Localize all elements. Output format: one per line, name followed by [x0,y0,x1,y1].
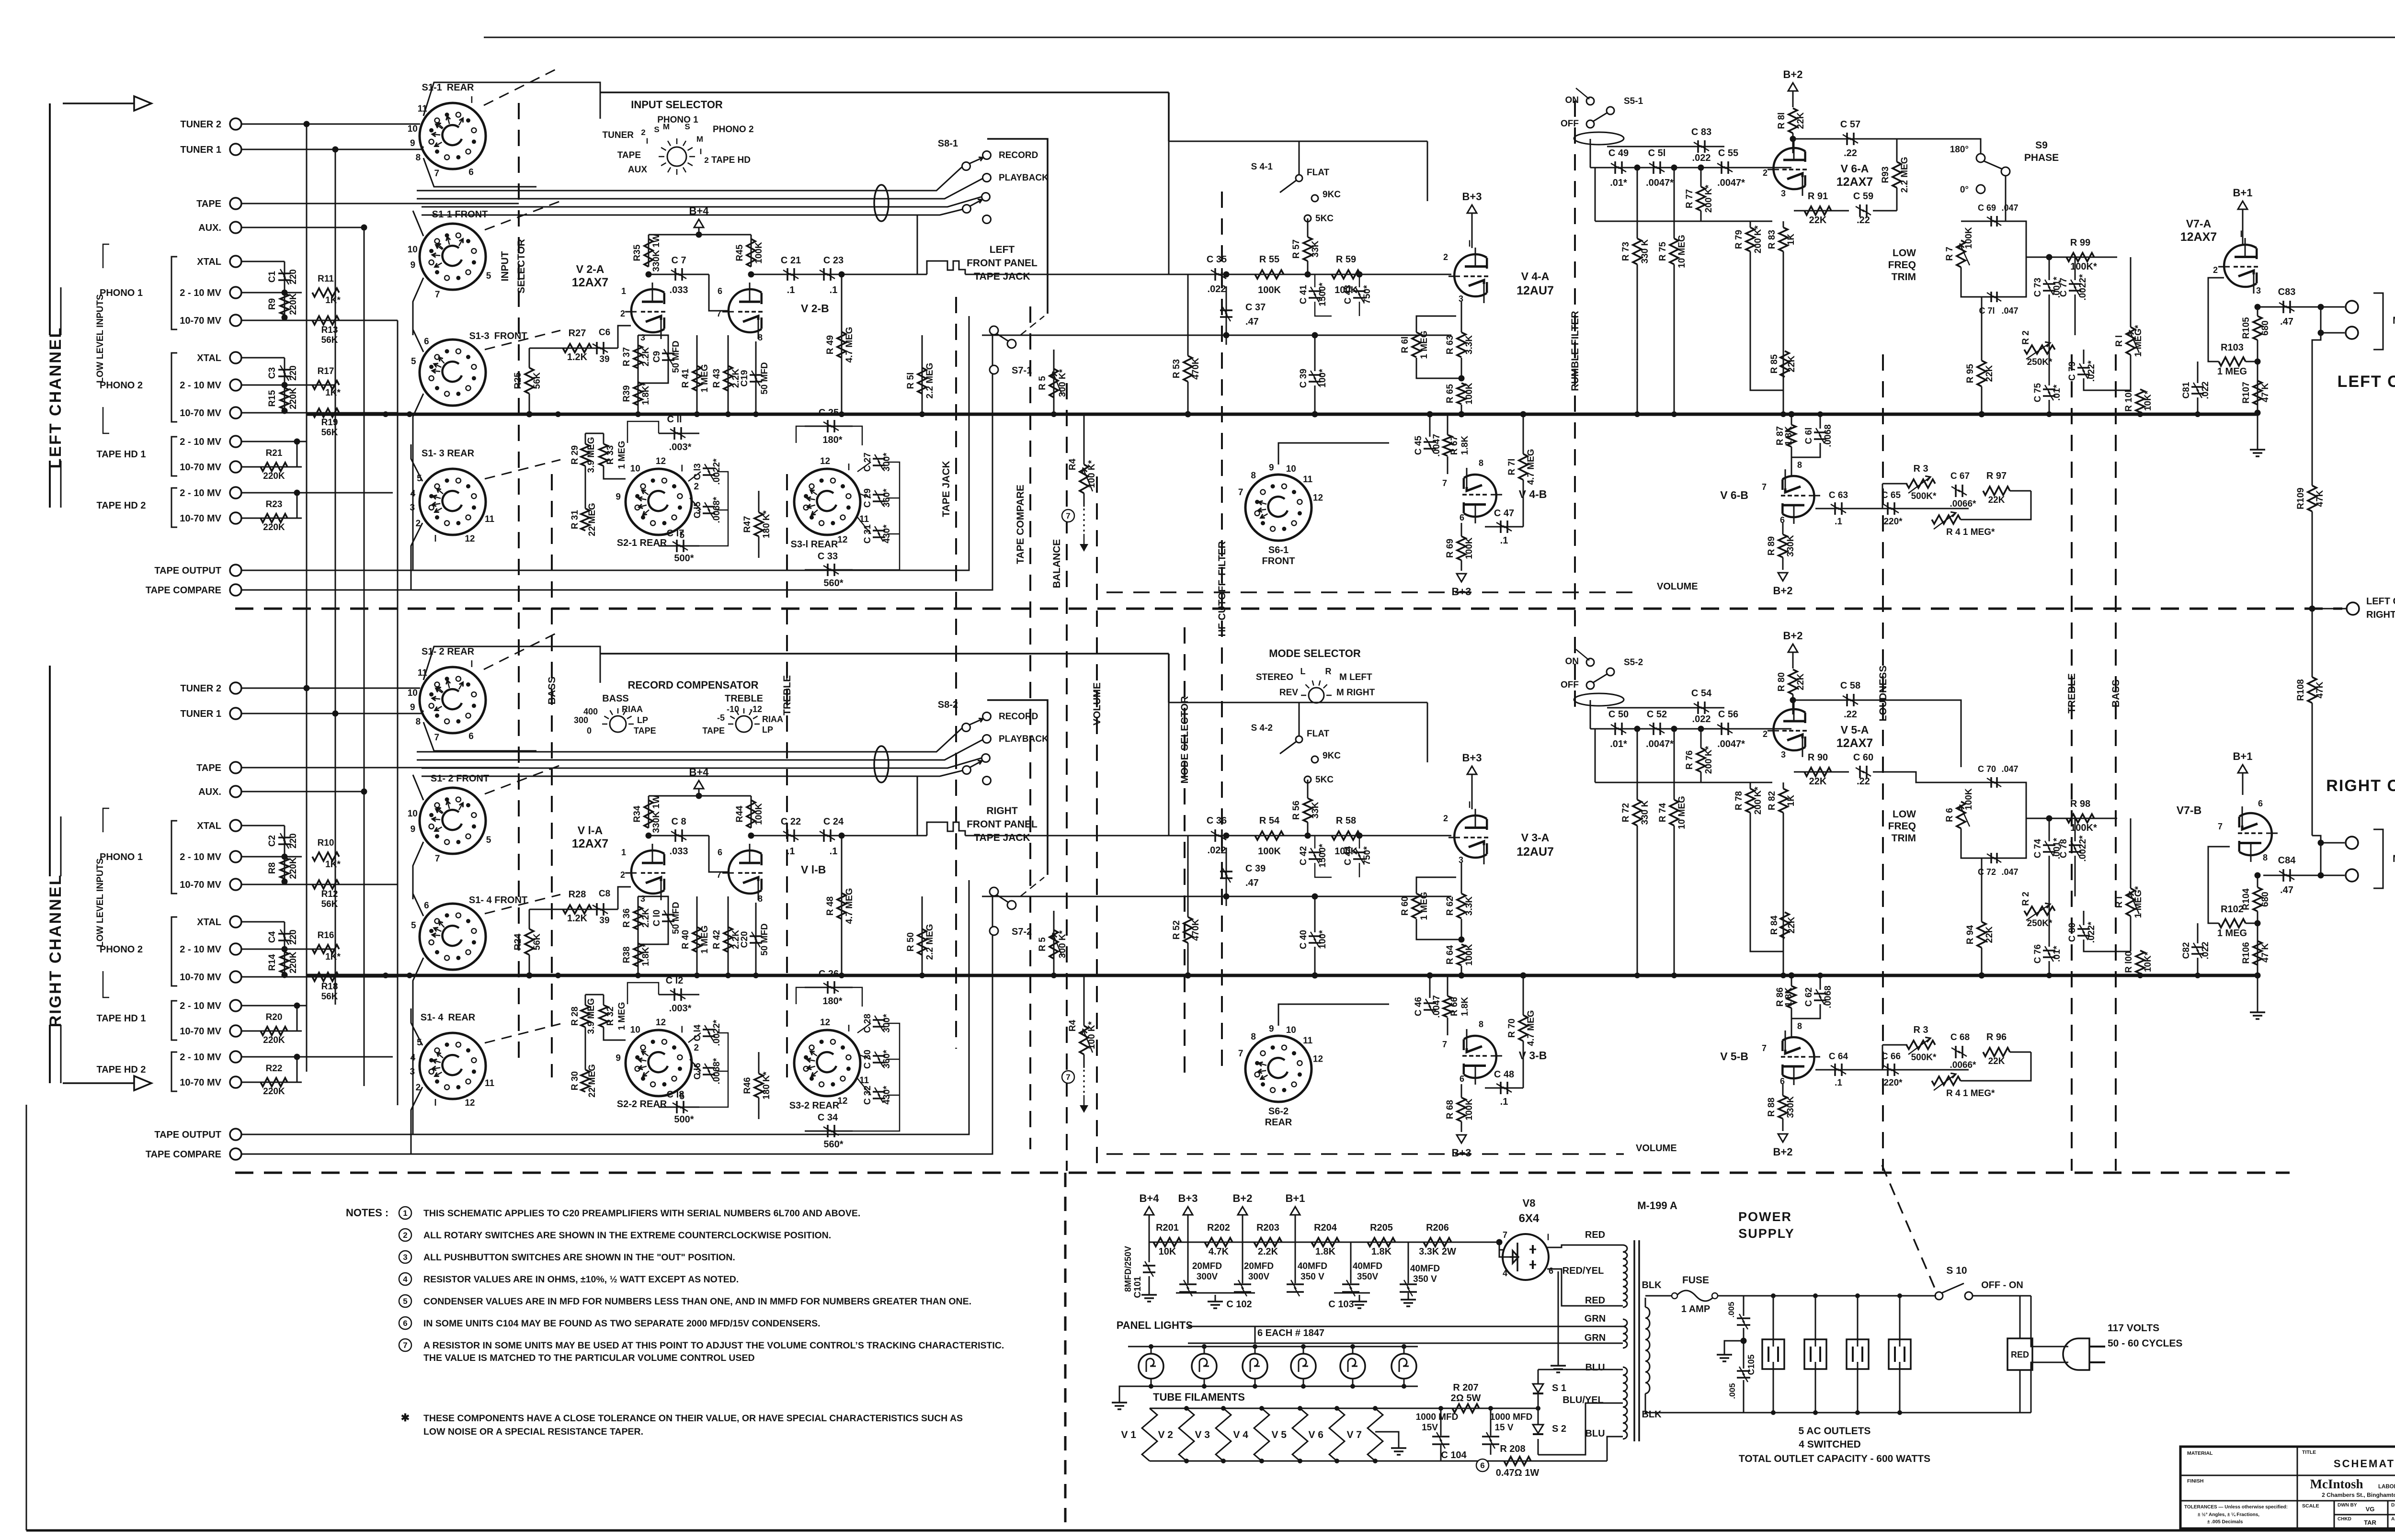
resistor R 8l 22K [1789,108,1797,133]
svg-text:TAPE HD 2: TAPE HD 2 [97,500,146,511]
svg-text:S1- 2 REAR: S1- 2 REAR [422,646,475,657]
svg-text:AUX: AUX [628,165,647,175]
svg-text:.01*: .01* [1610,178,1627,188]
svg-text:.0068: .0068 [1823,985,1833,1008]
svg-text:.1: .1 [1835,1078,1842,1088]
wire rectifier plate to rail [1499,1242,1504,1250]
input jack 10-70 MV y=669 [230,315,241,326]
svg-text:2: 2 [620,870,625,880]
svg-text:S1- 2 FRONT: S1- 2 FRONT [431,773,489,784]
svg-text:R 43: R 43 [712,369,722,388]
svg-text:R39: R39 [622,385,632,402]
capacitor C 80 .022* [2077,928,2090,930]
svg-text:R 10l: R 10l [2124,390,2134,411]
svg-text:TAPE JACK: TAPE JACK [974,832,1030,843]
svg-text:R 88: R 88 [1767,1098,1777,1117]
svg-text:ALL ROTARY SWITCHES ARE SHOWN: ALL ROTARY SWITCHES ARE SHOWN IN THE EXT… [423,1230,831,1241]
svg-text:2 - 10 MV: 2 - 10 MV [180,1052,221,1063]
svg-text:V 4-A: V 4-A [1521,270,1550,283]
resistor R24 56K [525,929,534,955]
svg-text:INPUT: INPUT [500,251,511,281]
resistor R109 47K [2312,307,2313,486]
svg-text:S 4-2: S 4-2 [1251,723,1273,733]
svg-text:C83: C83 [2278,287,2296,297]
panel lights ground [1128,1347,1129,1386]
svg-text:-5: -5 [717,713,725,723]
svg-text:MODE SELECTOR: MODE SELECTOR [1179,696,1190,784]
svg-text:7: 7 [403,1341,407,1350]
svg-text:CHKD: CHKD [2338,1517,2351,1522]
svg-text:R 5: R 5 [1038,376,1048,390]
svg-text:C 62: C 62 [1804,987,1814,1007]
svg-text:330K: 330K [1786,1096,1796,1118]
svg-text:20MFD: 20MFD [1192,1261,1222,1271]
wire filter net top [1299,141,1300,175]
svg-text:.22: .22 [1857,776,1870,787]
svg-text:R 75: R 75 [1658,242,1668,261]
rotary switch S1- 3 REAR [420,469,486,535]
resistor R 6l 1MEG [1412,332,1421,357]
left channel flow arrow [63,102,135,104]
input jack 10-70 MV y=1082 [230,512,241,524]
capacitor C 65 220* [1887,502,1889,515]
resistor R 89 330K [1779,534,1787,557]
svg-text:1 MEG: 1 MEG [617,441,627,469]
resistor R201 10K [1153,1238,1181,1246]
svg-text:10-70 MV: 10-70 MV [180,316,221,326]
wire tone ladder S3 top [796,426,805,443]
wire S6 to V4B [1278,1004,1389,1026]
svg-text:V 4: V 4 [1233,1429,1248,1440]
svg-text:LOUDNESS: LOUDNESS [1878,666,1889,722]
svg-text:39: 39 [599,916,609,926]
svg-text:3.3K: 3.3K [1464,896,1474,916]
svg-text:C 40: C 40 [1299,930,1309,949]
svg-text:4.7 MEG: 4.7 MEG [1526,1010,1536,1046]
svg-text:R 67: R 67 [1449,436,1460,455]
svg-text:6: 6 [424,901,429,911]
svg-text:100K: 100K [1258,846,1281,857]
svg-text:V l-B: V l-B [801,863,826,876]
svg-text:220K: 220K [288,951,298,974]
svg-text:R 69: R 69 [1445,539,1455,558]
triode V 6-A envelope [1768,141,1807,196]
capacitor C2 220 [241,825,285,827]
svg-text:l: l [1468,239,1471,249]
capacitor C 8 .033 [649,835,709,837]
svg-text:.01*: .01* [1610,739,1627,749]
svg-text:200 K*: 200 K* [1704,746,1714,774]
wire TAPE COMPARE run [241,890,992,1154]
svg-text:R46: R46 [742,1077,753,1094]
svg-text:V7-A: V7-A [2186,217,2211,230]
panel lamp 2 [1192,1354,1217,1379]
svg-text:R l: R l [2114,335,2124,347]
svg-text:GRN: GRN [1585,1314,1606,1324]
supply arrow B+1 right [2238,765,2247,773]
panel lamp 3 [1243,1354,1267,1379]
wire S1-3 rear outline [411,444,422,481]
capacitor C 76 .01* [2043,950,2055,951]
title block row lines [2180,1475,2395,1476]
svg-text:C 70: C 70 [1978,764,1996,774]
capacitor C 34 560* [805,1131,853,1132]
capacitor C 26 180* [805,987,853,988]
svg-text:10: 10 [408,245,418,255]
svg-text:R 207: R 207 [1453,1382,1478,1393]
resistor R 66 1.8K [1443,996,1452,1017]
svg-text:B+1: B+1 [2233,750,2253,762]
svg-text:TAPE OUTPUT: TAPE OUTPUT [154,1130,221,1140]
svg-text:R 59: R 59 [1336,254,1356,265]
triode V 6-B envelope [1781,469,1820,524]
svg-text:12: 12 [656,456,666,466]
svg-text:C2: C2 [267,835,277,847]
svg-text:8: 8 [758,333,763,342]
svg-text:RIGHT: RIGHT [986,805,1018,816]
wires to record/playback [417,728,962,752]
svg-text:MATERIAL: MATERIAL [2187,1450,2213,1456]
svg-text:9KC: 9KC [1323,751,1341,761]
svg-text:SCHEMATIC: SCHEMATIC [2334,1458,2395,1470]
svg-text:10: 10 [408,809,418,819]
capacitor C 35 .022 [1169,274,1245,275]
svg-text:R 89: R 89 [1767,536,1777,555]
svg-text:6: 6 [718,286,722,296]
svg-text:R202: R202 [1207,1223,1230,1233]
resistor R103 1MEG [2219,357,2246,366]
svg-text:.022: .022 [1208,284,1226,294]
wire tuner2 to selector [241,688,417,689]
svg-text:12AX7: 12AX7 [572,276,608,289]
wire tone ladder S3 right [857,1023,871,1033]
resistor R 52 470K [1184,917,1192,943]
svg-text:220*: 220* [1883,517,1903,527]
capacitor C 62 .0068 [1814,993,1826,995]
wire S1-3 rear outline [411,1008,422,1045]
svg-text:1.8K*: 1.8K* [641,943,651,966]
svg-text:100K: 100K [1964,788,1974,810]
svg-text:l: l [1468,800,1471,810]
svg-text:47 K: 47 K [2260,383,2270,402]
border top-right frame line [484,37,2395,38]
capacitor C 79 .022* [2077,367,2090,369]
wire selector outline polygon S1 rear [423,82,600,119]
triode V l-B envelope [722,844,763,900]
svg-text:4: 4 [403,1275,408,1284]
svg-text:50 MFD: 50 MFD [760,923,770,956]
capacitor C 41 1500* [1309,290,1321,292]
svg-text:22K: 22K [1988,495,2005,505]
svg-text:.47: .47 [1245,878,1259,888]
svg-text:7: 7 [1066,1073,1070,1082]
tube filament V1 [1142,1408,1157,1461]
wire loudness top net [1590,700,1591,729]
svg-text:C 42: C 42 [1299,846,1309,865]
svg-text:6: 6 [1460,1074,1464,1084]
svg-text:R 36: R 36 [622,908,632,928]
svg-text:1.8K: 1.8K [1784,987,1794,1007]
resistor R 64 100K [1457,944,1466,965]
svg-text:500*: 500* [674,553,694,564]
svg-text:9: 9 [1269,463,1274,473]
svg-text:TAR: TAR [2364,1519,2376,1526]
capacitor C 32 430* [873,1091,885,1093]
svg-text:C 74: C 74 [2033,839,2043,859]
AC outlet 1 (switched) [1762,1339,1784,1369]
resistor R 73 330K [1633,238,1642,264]
input jack TAPE OUTPUT [230,565,241,576]
svg-text:1: 1 [403,1209,407,1218]
svg-text:6: 6 [1480,1461,1484,1470]
resistor R 67 1.8K [1443,435,1452,456]
input jack AUX. y=1653 [230,786,241,797]
svg-text:11: 11 [859,1076,869,1086]
svg-text:.0022*: .0022* [2078,274,2088,301]
svg-text:C 34: C 34 [818,1112,838,1123]
svg-text:R47: R47 [742,516,753,533]
svg-text:V 5: V 5 [1271,1429,1287,1440]
transformer secondary RED winding [1623,1245,1627,1307]
svg-text:C 48: C 48 [1494,1069,1514,1080]
svg-text:100K: 100K [754,803,764,825]
svg-text:1: 1 [621,286,626,296]
svg-text:1K*: 1K* [325,860,341,870]
resistor R39 1.8K* [634,382,642,405]
svg-text:10 MEG: 10 MEG [1677,796,1687,829]
svg-text:PHONO 1: PHONO 1 [100,288,143,298]
svg-text:100K: 100K [1464,1098,1474,1121]
svg-text:C 44: C 44 [1343,846,1353,866]
svg-text:330 K: 330 K [1640,239,1650,263]
svg-text:50 MFD: 50 MFD [671,902,681,934]
svg-text:.01*: .01* [2052,945,2062,962]
svg-text:1 MEG: 1 MEG [1419,892,1429,920]
resistor R 37 2.2K [638,335,639,414]
resistor R 87 1.8K [1787,425,1796,447]
svg-text:TREBLE: TREBLE [2066,673,2077,713]
svg-text:350 V: 350 V [1300,1272,1324,1282]
svg-text:R 56: R 56 [1291,801,1301,820]
svg-text:C105: C105 [1746,1354,1756,1375]
resistor R 49 4.7MEG [841,274,843,414]
svg-text:9: 9 [616,492,621,502]
wire tone ladder S2 right [688,472,701,481]
svg-text:RIGHT CHANNEL: RIGHT CHANNEL [46,874,65,1027]
svg-text:117 VOLTS: 117 VOLTS [2108,1323,2159,1334]
svg-text:3: 3 [640,894,645,904]
svg-text:C 43: C 43 [1343,285,1353,304]
svg-text:R 28: R 28 [570,1007,580,1026]
svg-text:TAPE OUTPUT: TAPE OUTPUT [154,566,221,576]
svg-text:R 96: R 96 [1986,1032,2007,1042]
svg-text:l: l [1547,1233,1549,1242]
resistor R 91 22K [1794,210,1849,212]
svg-text:220: 220 [288,269,298,284]
rectifier V8 6X4 envelope [1503,1234,1549,1280]
svg-text:500K*: 500K* [1911,1053,1937,1063]
svg-text:8: 8 [1479,458,1483,468]
svg-text:330K 1W: 330K 1W [651,234,661,272]
supply arrow B+3 power supply [1183,1207,1193,1215]
svg-text:R9: R9 [267,298,277,310]
capacitor C 23 .1 [823,268,825,281]
svg-text:12AX7: 12AX7 [1836,175,1873,189]
wire aux to selector [241,227,364,228]
svg-text:11: 11 [859,514,869,524]
svg-text:R 85: R 85 [1769,354,1779,374]
svg-text:TAPE JACK: TAPE JACK [974,271,1030,282]
svg-text:10: 10 [630,1025,640,1035]
svg-text:10K*: 10K* [2143,951,2153,972]
svg-text:TAPE HD 1: TAPE HD 1 [97,449,146,460]
title block outer box [2180,1447,2395,1529]
svg-text:C 56: C 56 [1718,709,1738,720]
svg-text:FREQ: FREQ [1888,821,1916,832]
svg-text:LOW LEVEL INPUTS: LOW LEVEL INPUTS [95,858,105,947]
svg-text:C l2: C l2 [666,975,684,986]
wire selector outline polygon S1-3 front [413,314,423,352]
svg-text:1K: 1K [1786,795,1796,807]
resistor R22 220K [241,1056,393,1058]
resistor R25 56K [525,368,534,394]
svg-text:HF CUTOFF: HF CUTOFF [1217,580,1228,637]
svg-text:MODE SELECTOR: MODE SELECTOR [1269,647,1361,659]
resistor R 43 2.2K [728,335,729,414]
note 4 circled number [399,1273,411,1285]
svg-text:l: l [434,534,436,544]
capacitor C 47 .1 [1485,526,1523,528]
svg-text:1 MEG: 1 MEG [1419,330,1429,359]
svg-text:R 82: R 82 [1767,791,1777,810]
svg-text:R20: R20 [266,1012,283,1022]
capacitor C3 220 [241,357,285,359]
svg-text:TAPE COMPARE: TAPE COMPARE [146,1149,221,1160]
svg-text:C 63: C 63 [1829,490,1848,500]
svg-text:.0047*: .0047* [1646,739,1674,749]
svg-text:SCALE: SCALE [2302,1503,2319,1509]
svg-text:l: l [2240,229,2242,239]
wire S8 top rail to filter feed [600,91,1169,93]
capacitor C84 .47 output coupling [2263,875,2345,876]
wire plate to supply [648,796,650,828]
power rail wire [1149,1242,1499,1243]
svg-text:l: l [470,659,473,669]
svg-text:BASS: BASS [547,677,558,704]
svg-text:l: l [681,1025,683,1035]
wire row 700 [982,896,1451,897]
svg-text:330K 1W: 330K 1W [651,795,661,833]
svg-text:C 67: C 67 [1950,471,1970,481]
svg-text:V8: V8 [1523,1197,1536,1209]
svg-text:C 29: C 29 [863,488,873,508]
svg-text:R103: R103 [2221,342,2244,353]
capacitor C 55 .0047* [1721,161,1722,174]
svg-text:220: 220 [288,365,298,381]
title block vertical dividers [2297,1447,2298,1529]
svg-text:C ll: C ll [667,414,682,425]
wire tape to selector [241,767,519,769]
svg-text:C 66: C 66 [1882,1052,1901,1062]
capacitor C 49 .01* [1614,161,1616,174]
svg-text:R10: R10 [318,838,334,848]
supply arrow B+2 [1788,644,1798,652]
wire S8 top rail to filter feed [600,653,1169,655]
svg-text:12AU7: 12AU7 [1517,845,1554,859]
capacitor C 67 .0066* [1955,485,1957,497]
svg-text:100K: 100K [1464,537,1474,559]
svg-text:S7-1: S7-1 [1012,365,1032,376]
svg-text:A RESISTOR IN SOME UNITS MAY B: A RESISTOR IN SOME UNITS MAY BE USED AT … [423,1340,1004,1351]
svg-text:R8: R8 [267,862,277,874]
svg-text:50 MFD: 50 MFD [671,340,681,373]
svg-text:M: M [696,135,703,144]
svg-text:.22: .22 [1844,709,1857,720]
svg-text:C 102: C 102 [1226,1299,1252,1310]
svg-text:STEREO: STEREO [1256,672,1293,682]
capacitor C 77 .0022* [2069,283,2081,285]
capacitor C 5l .0047* [1653,161,1654,174]
svg-text:ON: ON [1565,657,1579,667]
resistor R 90 22K [1794,771,1849,773]
svg-text:200 K*: 200 K* [1753,225,1763,253]
svg-text:RIGHT CHANNEL OUTPUT: RIGHT CHANNEL OUTPUT [2366,610,2395,620]
svg-text:PHONO 2: PHONO 2 [100,380,143,391]
svg-text:V 7: V 7 [1346,1429,1362,1440]
svg-text:300: 300 [574,715,588,725]
svg-text:C8: C8 [599,889,610,899]
wire to line output [2320,307,2321,333]
svg-text:2 - 10 MV: 2 - 10 MV [180,288,221,298]
svg-text:7: 7 [1238,1049,1243,1059]
input jack 2 - 10 MV y=1029 [230,487,241,498]
svg-text:C 68: C 68 [1950,1032,1970,1042]
svg-text:LEFT: LEFT [990,244,1015,255]
svg-text:C 22: C 22 [781,816,801,827]
svg-text:6: 6 [1460,513,1464,522]
wire heater center tap ground [1558,1271,1559,1359]
input jack 2 - 10 MV y=2100 [230,1000,241,1011]
svg-text:LEFT CHANNEL: LEFT CHANNEL [46,327,65,469]
svg-text:R 2: R 2 [2021,330,2031,345]
wire GRN to panel lights [1188,1326,1623,1327]
tube filament V2 [1179,1408,1194,1461]
capacitor C 60 .22 [1859,766,1861,778]
fuse symbol [1676,1291,1715,1301]
svg-text:S5-2: S5-2 [1624,657,1643,668]
capacitor C1 220 [241,261,285,262]
wire S6 to V4B [1278,443,1389,464]
capacitor C 42 1500* [1309,851,1321,853]
svg-text:3.3K: 3.3K [1464,335,1474,354]
svg-text:10K*: 10K* [2143,390,2153,411]
svg-text:-10: -10 [727,704,739,714]
input jack XTAL y=747 [230,352,241,363]
svg-text:40MFD: 40MFD [1353,1261,1382,1271]
svg-text:12: 12 [820,1018,830,1028]
circled note 7 left [1062,510,1074,522]
svg-text:12: 12 [1313,1054,1323,1064]
svg-text:R28: R28 [569,889,586,900]
resistor R47 180K* [754,512,763,536]
svg-text:40MFD: 40MFD [1298,1261,1327,1271]
svg-text:1: 1 [621,848,626,857]
svg-text:11: 11 [1303,475,1313,485]
main outputs jack upper left [2346,301,2358,313]
main outputs jack lower left [2346,327,2358,339]
svg-text:ON: ON [1565,95,1579,105]
svg-text:C 24: C 24 [823,816,844,827]
